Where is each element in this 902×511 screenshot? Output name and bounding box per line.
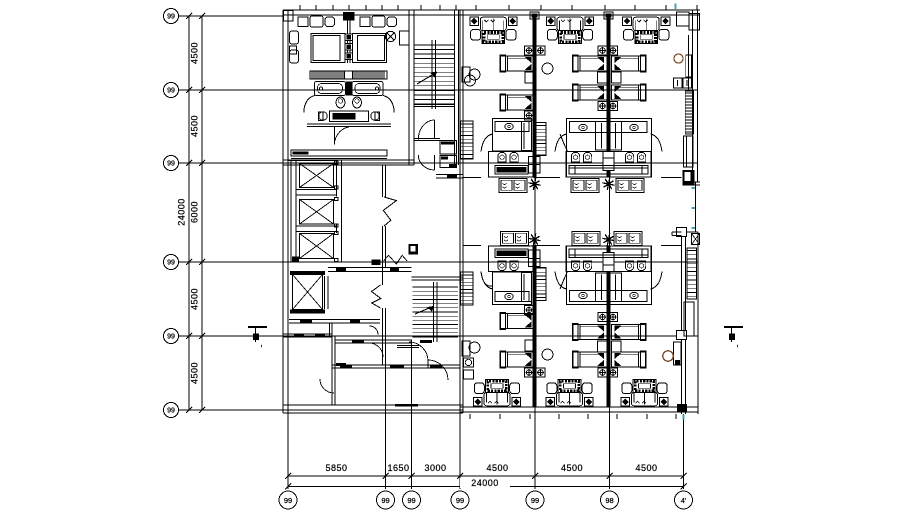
svg-text:,: , xyxy=(736,338,739,348)
svg-text:24000: 24000 xyxy=(471,478,499,488)
svg-text:4': 4' xyxy=(681,496,687,505)
svg-text:4500: 4500 xyxy=(486,463,508,473)
svg-text:4500: 4500 xyxy=(190,115,200,137)
svg-text:4500: 4500 xyxy=(190,42,200,64)
svg-text:99: 99 xyxy=(407,496,415,505)
svg-text:3000: 3000 xyxy=(424,463,446,473)
svg-text:99: 99 xyxy=(167,334,175,341)
svg-text:98: 98 xyxy=(605,496,613,505)
svg-text:4500: 4500 xyxy=(561,463,583,473)
svg-text:99: 99 xyxy=(456,496,464,505)
svg-text:24000: 24000 xyxy=(177,198,187,226)
svg-text:6000: 6000 xyxy=(190,201,200,223)
svg-text:99: 99 xyxy=(167,260,175,267)
svg-text:99: 99 xyxy=(381,496,389,505)
svg-text:99: 99 xyxy=(167,161,175,168)
svg-text:1650: 1650 xyxy=(387,463,409,473)
svg-text:99: 99 xyxy=(284,496,292,505)
svg-text:99: 99 xyxy=(167,14,175,21)
svg-text:5850: 5850 xyxy=(325,463,347,473)
svg-text:4500: 4500 xyxy=(190,362,200,384)
svg-text:4500: 4500 xyxy=(635,463,657,473)
svg-text:4500: 4500 xyxy=(190,288,200,310)
svg-text:,: , xyxy=(260,338,263,348)
svg-text:99: 99 xyxy=(167,408,175,415)
svg-text:99: 99 xyxy=(531,496,539,505)
svg-text:99: 99 xyxy=(167,88,175,95)
